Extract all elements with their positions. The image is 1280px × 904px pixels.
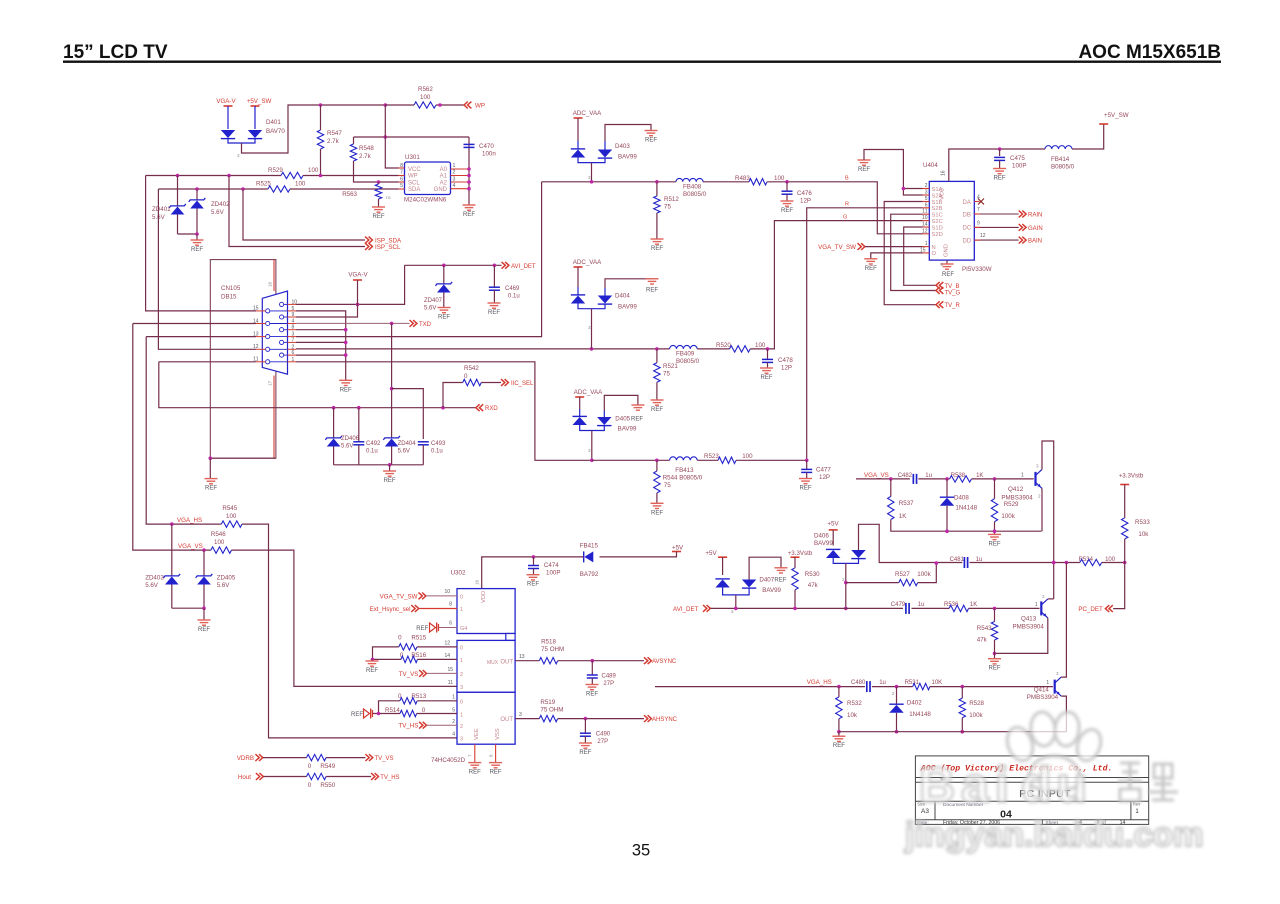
- wire D407 to AVI row: [735, 595, 737, 609]
- diode D405 BAV99: [579, 397, 581, 409]
- VCC rail U404: [949, 149, 1045, 181]
- svg-text:1u: 1u: [918, 602, 925, 608]
- zener ZD404: [385, 439, 399, 447]
- capacitor C475: [999, 149, 1001, 156]
- wire D405 right to REF: [604, 395, 638, 410]
- ground for D404: [646, 279, 659, 284]
- wire RXD row: [159, 362, 476, 408]
- svg-text:14: 14: [444, 653, 450, 659]
- resistor R530: [794, 557, 796, 568]
- zener ZD407: [443, 265, 445, 283]
- svg-text:74HC4052D: 74HC4052D: [431, 757, 466, 764]
- svg-text:R546: R546: [211, 531, 226, 538]
- svg-text:U302: U302: [451, 570, 466, 577]
- svg-text:TV_B: TV_B: [945, 284, 960, 290]
- svg-text:DA: DA: [963, 200, 971, 206]
- ground for R521: [651, 400, 664, 405]
- svg-text:5.6V: 5.6V: [145, 582, 159, 589]
- wire pin8 stub: [296, 329, 346, 331]
- pin stubs U404 left: [923, 188, 930, 190]
- port BAIN: [974, 239, 1018, 241]
- zener ZD401: [177, 176, 179, 206]
- port ISP_SCL: [365, 243, 369, 250]
- ground for VEE: [468, 763, 481, 768]
- power flag +5V_SW right: [1072, 124, 1104, 149]
- svg-text:D405: D405: [615, 416, 630, 423]
- wire S1C to TV_G riser: [891, 214, 936, 290]
- svg-text:VGA_HS: VGA_HS: [807, 679, 832, 686]
- pin stubs U301 left: [399, 167, 405, 169]
- svg-text:REF: REF: [373, 214, 385, 220]
- svg-text:C477: C477: [816, 467, 831, 474]
- svg-text:0: 0: [460, 646, 463, 652]
- svg-text:WP: WP: [408, 174, 418, 180]
- wire: [254, 106, 256, 129]
- zener ZD405: [203, 550, 205, 575]
- svg-text:+5V: +5V: [827, 521, 839, 528]
- svg-text:REF: REF: [586, 692, 598, 698]
- wire to U302 VDD: [482, 557, 584, 589]
- svg-text:+3.3Vstb: +3.3Vstb: [1119, 473, 1144, 480]
- wire VGA-V to pin9: [296, 280, 358, 317]
- svg-text:R527: R527: [895, 571, 910, 578]
- port TV_G: [936, 287, 940, 294]
- svg-text:2: 2: [1038, 494, 1041, 499]
- svg-text:R563: R563: [342, 191, 357, 198]
- svg-text:100k: 100k: [969, 712, 983, 719]
- wire ISP_SDA: [243, 189, 365, 240]
- svg-text:B0805/0: B0805/0: [683, 191, 707, 198]
- resistor R532: [838, 687, 840, 697]
- ground for D403: [645, 131, 658, 136]
- resistor R543: [994, 608, 996, 621]
- svg-text:C475: C475: [1010, 155, 1025, 162]
- wire C480 to R531: [872, 686, 913, 688]
- svg-text:D408: D408: [954, 495, 969, 502]
- capacitor C481: [963, 557, 965, 568]
- svg-text:3: 3: [460, 737, 463, 743]
- svg-text:WP: WP: [475, 103, 485, 110]
- wire Q412 emitter: [1041, 488, 1043, 531]
- svg-text:4: 4: [452, 732, 455, 738]
- svg-text:REF: REF: [340, 387, 352, 393]
- svg-text:S2B: S2B: [932, 206, 943, 212]
- wire pin5 ground chain: [296, 311, 346, 380]
- svg-text:5: 5: [400, 183, 403, 189]
- U302 VSS pin: [495, 744, 497, 762]
- svg-text:REF: REF: [781, 208, 793, 214]
- zener ZD406: [333, 408, 335, 438]
- wire S1D to TV_B riser: [904, 227, 936, 285]
- svg-text:1: 1: [925, 241, 928, 247]
- svg-text:75 OHM: 75 OHM: [541, 646, 564, 653]
- ground for D407: [775, 568, 788, 573]
- ferrite FB413: [670, 457, 698, 460]
- ferrite FB414: [1045, 146, 1072, 149]
- svg-text:VCC: VCC: [940, 188, 946, 200]
- capacitor C477: [806, 460, 808, 469]
- svg-text:VGA_VS: VGA_VS: [178, 543, 203, 550]
- wire Q413 emitter to ground row: [995, 618, 1048, 654]
- svg-text:R528: R528: [969, 700, 984, 707]
- svg-text:0.1u: 0.1u: [431, 449, 443, 455]
- svg-text:100: 100: [214, 539, 225, 546]
- svg-text:TV_HS: TV_HS: [398, 723, 418, 730]
- svg-text:VGA-V: VGA-V: [348, 272, 368, 279]
- svg-text:2: 2: [460, 672, 463, 678]
- svg-text:BAV99: BAV99: [618, 154, 637, 161]
- svg-text:A2: A2: [440, 180, 448, 186]
- svg-text:Q413: Q413: [1021, 616, 1037, 623]
- pin stubs U301 right: [451, 168, 470, 170]
- port AVI_DET: [502, 262, 506, 269]
- wire D406 mid to R527 and AVI: [845, 563, 847, 608]
- ground for CN105 gnd pins: [339, 380, 352, 385]
- svg-text:R550: R550: [320, 782, 335, 789]
- svg-text:N: N: [932, 245, 936, 251]
- svg-text:B0805/0: B0805/0: [676, 358, 700, 365]
- svg-text:BAV99: BAV99: [618, 304, 637, 311]
- resistor R537: [890, 479, 892, 497]
- svg-text:VEE: VEE: [474, 728, 480, 740]
- svg-text:VGA_VS: VGA_VS: [864, 472, 889, 479]
- svg-text:1u: 1u: [925, 473, 932, 479]
- svg-text:REF: REF: [651, 510, 663, 516]
- svg-text:16: 16: [941, 170, 947, 176]
- svg-text:R529: R529: [1004, 501, 1019, 508]
- svg-text:OUT: OUT: [500, 659, 513, 665]
- svg-text:100: 100: [295, 181, 306, 188]
- svg-text:10k: 10k: [1138, 531, 1149, 538]
- svg-text:REF: REF: [366, 668, 378, 674]
- port ISP_SDA: [365, 237, 369, 244]
- ground for C469: [488, 303, 501, 308]
- wire AVI_DET row: [405, 264, 502, 266]
- ground for C490: [579, 743, 592, 748]
- svg-text:R529: R529: [268, 167, 283, 174]
- ground for zener group: [383, 471, 396, 476]
- svg-text:BAIN: BAIN: [1028, 239, 1042, 245]
- svg-text:AVI_DET: AVI_DET: [511, 264, 536, 270]
- svg-text:47k: 47k: [977, 637, 988, 644]
- svg-text:PMBS3904: PMBS3904: [1027, 694, 1059, 701]
- resistor R512: [656, 182, 658, 196]
- svg-text:3: 3: [1056, 671, 1059, 676]
- svg-text:D403: D403: [615, 143, 630, 150]
- svg-text:C492: C492: [366, 441, 381, 447]
- wire U301 right node: [468, 137, 470, 205]
- port TXD: [410, 320, 414, 327]
- svg-text:9: 9: [977, 220, 980, 226]
- resistor R549: [307, 754, 327, 760]
- svg-text:C489: C489: [602, 674, 617, 680]
- svg-text:R530: R530: [805, 571, 820, 578]
- svg-text:75 OHM: 75 OHM: [540, 707, 563, 714]
- svg-text:100k: 100k: [1001, 513, 1015, 520]
- svg-text:27P: 27P: [603, 681, 614, 687]
- svg-text:1: 1: [453, 163, 456, 169]
- svg-text:Ext_Hsync_sel: Ext_Hsync_sel: [370, 606, 411, 613]
- pin DA no-connect: [974, 201, 979, 203]
- svg-text:12P: 12P: [819, 474, 830, 481]
- ground for R532: [838, 732, 840, 737]
- wire TXD riser to ZD404: [391, 323, 393, 437]
- svg-text:TV_VS: TV_VS: [399, 671, 419, 678]
- wire pin11 row: [159, 361, 256, 363]
- resistor R521: [656, 349, 658, 363]
- svg-text:PC_DET: PC_DET: [1078, 606, 1103, 613]
- svg-text:VGA_HS: VGA_HS: [177, 517, 202, 524]
- title block frame: [915, 756, 1148, 825]
- svg-text:VCC: VCC: [408, 167, 421, 173]
- ground CN105 shell: [210, 457, 276, 459]
- svg-text:jingyan.baidu.com: jingyan.baidu.com: [904, 816, 1203, 854]
- wire: [227, 106, 229, 129]
- svg-text:TV_R: TV_R: [945, 303, 961, 309]
- svg-text:15” LCD TV: 15” LCD TV: [63, 42, 168, 63]
- svg-text:1: 1: [1035, 602, 1038, 608]
- svg-text:AVSYNC: AVSYNC: [652, 659, 677, 665]
- resistor R550: [307, 773, 327, 779]
- resistor R528: [961, 687, 963, 699]
- svg-text:REF: REF: [198, 627, 210, 633]
- svg-text:2.7k: 2.7k: [327, 138, 340, 145]
- ground for C474: [527, 575, 540, 580]
- svg-text:TV_VS: TV_VS: [375, 756, 394, 762]
- svg-text:S2D: S2D: [932, 232, 943, 238]
- svg-text:5.6V: 5.6V: [217, 582, 231, 589]
- svg-text:ADC_VAA: ADC_VAA: [573, 259, 602, 266]
- ground for C470: [463, 205, 476, 210]
- svg-text:R520: R520: [716, 342, 731, 349]
- wire VGA_VS to C482: [856, 478, 910, 480]
- svg-text:10K: 10K: [932, 680, 943, 686]
- svg-text:FB414: FB414: [1051, 156, 1070, 163]
- svg-text:100P: 100P: [1012, 163, 1026, 170]
- svg-text:2.7k: 2.7k: [359, 153, 372, 160]
- svg-text:ZD403: ZD403: [145, 575, 164, 582]
- diode D402 1N4148: [896, 687, 898, 705]
- wire pin7 stub: [296, 341, 346, 343]
- svg-text:REF: REF: [205, 486, 217, 492]
- svg-text:75: 75: [663, 371, 670, 378]
- svg-text:47k: 47k: [808, 582, 819, 589]
- svg-text:3: 3: [460, 685, 463, 691]
- svg-text:REF: REF: [645, 138, 657, 144]
- ferrite FB408: [676, 178, 703, 181]
- svg-text:B0805/0: B0805/0: [1051, 164, 1075, 171]
- ground for C476: [781, 201, 794, 206]
- diode D407 BAV99: [722, 557, 724, 575]
- header underline: [63, 61, 1221, 63]
- connector pins right column: [282, 303, 288, 305]
- svg-text:75: 75: [664, 204, 671, 211]
- svg-text:Bai: Bai: [919, 757, 1015, 813]
- svg-text:15: 15: [447, 667, 453, 673]
- port RXD: [476, 404, 480, 411]
- ferrite FB409: [670, 345, 698, 348]
- wire pin15 row: [146, 176, 256, 311]
- diode D403 BAV99: [577, 118, 579, 141]
- svg-text:VDD: VDD: [481, 591, 487, 603]
- svg-text:R: R: [845, 202, 849, 208]
- svg-text:0.1u: 0.1u: [366, 449, 378, 455]
- svg-text:C482: C482: [898, 473, 913, 479]
- svg-text:REF: REF: [527, 582, 539, 588]
- wire pin10 row to AVI node: [296, 265, 405, 304]
- wire pin12 row: [158, 189, 256, 349]
- wire D405 to R row: [591, 431, 593, 461]
- svg-text:ZD405: ZD405: [217, 575, 236, 582]
- svg-text:1N4148: 1N4148: [955, 505, 977, 512]
- svg-text:3: 3: [1036, 464, 1039, 469]
- wire: [242, 105, 386, 153]
- svg-text:BAV99: BAV99: [618, 426, 637, 433]
- capacitor C490: [584, 719, 586, 733]
- svg-text:D404: D404: [615, 293, 630, 300]
- svg-text:REF: REF: [994, 176, 1006, 182]
- svg-text:REF: REF: [858, 167, 870, 173]
- svg-text:C469: C469: [505, 286, 520, 292]
- svg-text:BAV70: BAV70: [266, 128, 285, 135]
- svg-text:ZD404: ZD404: [398, 441, 417, 447]
- svg-text:C490: C490: [596, 732, 611, 738]
- svg-text:CN105: CN105: [221, 285, 241, 292]
- diode D404 BAV99: [577, 267, 579, 287]
- svg-text:ADC_VAA: ADC_VAA: [574, 389, 603, 396]
- zener ZD403: [171, 524, 173, 575]
- svg-text:1: 1: [460, 607, 463, 613]
- ground for C477: [799, 479, 812, 484]
- wire Q412 collector loop: [1042, 441, 1054, 563]
- svg-text:C474: C474: [544, 562, 559, 569]
- capacitor C493: [418, 441, 429, 443]
- svg-text:REF: REF: [942, 272, 954, 278]
- wire D404 to G row: [591, 309, 593, 349]
- svg-text:Hout: Hout: [238, 774, 251, 781]
- svg-text:75: 75: [664, 482, 671, 489]
- svg-text:0: 0: [308, 763, 312, 770]
- resistor R529: [994, 479, 996, 499]
- svg-text:REF: REF: [490, 770, 502, 776]
- svg-text:100n: 100n: [482, 151, 496, 158]
- wire pin13 row: [146, 336, 256, 338]
- svg-text:C470: C470: [479, 143, 494, 150]
- svg-text:R523: R523: [704, 453, 719, 460]
- wire C482 to R538: [918, 478, 949, 480]
- wire D404 right to REF: [605, 279, 652, 288]
- ground for R563: [372, 207, 385, 212]
- svg-text:PMBS3904: PMBS3904: [1013, 624, 1045, 631]
- ground for R516: [371, 659, 373, 661]
- wire O pin to ground: [871, 253, 923, 259]
- svg-text:100P: 100P: [546, 570, 560, 577]
- svg-text:1: 1: [1021, 473, 1024, 479]
- svg-text:R515: R515: [411, 635, 426, 642]
- wire ISP_SCL: [229, 176, 365, 247]
- capacitor C492: [358, 408, 360, 442]
- wire pin1 red channel: [296, 362, 592, 461]
- ground for ZD407: [438, 308, 451, 313]
- port RAIN: [974, 213, 1018, 215]
- svg-text:16: 16: [268, 281, 273, 287]
- port PC_DET: [1113, 563, 1125, 609]
- svg-text:REF: REF: [989, 666, 1001, 672]
- svg-text:10k: 10k: [847, 712, 858, 719]
- svg-text:TV_G: TV_G: [945, 291, 961, 297]
- resistor R547: [320, 105, 322, 130]
- connector shell pin 16: [273, 260, 275, 291]
- svg-text:REF: REF: [774, 578, 786, 584]
- svg-text:O: O: [932, 251, 937, 257]
- wire zener group join: [334, 464, 424, 466]
- svg-text:PMBS3904: PMBS3904: [1001, 495, 1033, 502]
- zener ZD402: [196, 189, 198, 200]
- svg-text:100: 100: [308, 167, 319, 174]
- svg-text:ZD407: ZD407: [424, 298, 443, 304]
- svg-text:AOC M15X651B: AOC M15X651B: [1078, 42, 1221, 63]
- svg-text:REF: REF: [416, 626, 428, 632]
- svg-text:PI5V330W: PI5V330W: [962, 266, 992, 273]
- svg-text:VGA-V: VGA-V: [216, 98, 236, 105]
- svg-text:8: 8: [940, 262, 943, 267]
- svg-text:13: 13: [519, 654, 525, 660]
- svg-text:S1C: S1C: [932, 213, 943, 219]
- svg-text:M24C02WMN6: M24C02WMN6: [404, 197, 447, 204]
- port TV_B: [936, 282, 940, 289]
- svg-text:5.6V: 5.6V: [398, 449, 410, 455]
- resistor R548: [353, 137, 355, 144]
- svg-text:REF: REF: [761, 375, 773, 381]
- svg-text:G4: G4: [460, 626, 467, 632]
- wire FB415 row: [600, 552, 677, 557]
- port AVSYNC: [644, 657, 648, 664]
- svg-text:7: 7: [400, 170, 403, 176]
- ground path S1A S2A: [858, 160, 871, 165]
- svg-text:ISP_SCL: ISP_SCL: [375, 244, 401, 251]
- svg-text:R518: R518: [541, 639, 556, 646]
- svg-text:0: 0: [398, 635, 402, 642]
- svg-text:FB408: FB408: [683, 184, 702, 191]
- svg-text:R562: R562: [418, 86, 433, 93]
- svg-text:R483: R483: [735, 175, 750, 182]
- capacitor C476: [786, 182, 788, 191]
- wire VGA_VS row: [133, 324, 211, 551]
- diode D401 BAV70: [221, 130, 235, 138]
- wire D403 to B row: [591, 163, 593, 182]
- wire VGA_HS row: [146, 337, 221, 524]
- svg-text:ADC_VAA: ADC_VAA: [573, 110, 602, 117]
- wire VGA_HS row right: [655, 686, 865, 688]
- svg-text:C479: C479: [891, 602, 906, 608]
- svg-text:0: 0: [460, 700, 463, 706]
- svg-text:5.6V: 5.6V: [211, 209, 225, 216]
- port AHSYNC: [644, 715, 648, 722]
- ground for C489: [586, 685, 599, 690]
- svg-text:REF: REF: [351, 712, 363, 718]
- svg-text:REF: REF: [865, 266, 877, 272]
- svg-text:7: 7: [977, 207, 980, 213]
- svg-text:12: 12: [444, 641, 450, 647]
- svg-text:8: 8: [489, 754, 494, 757]
- svg-text:Q414: Q414: [1034, 687, 1050, 694]
- capacitor C489: [591, 661, 593, 675]
- svg-text:R519: R519: [540, 699, 555, 706]
- svg-text:+5V: +5V: [672, 545, 684, 552]
- svg-text:R537: R537: [899, 500, 914, 507]
- svg-text:VSS: VSS: [495, 728, 501, 740]
- wire D403 right to REF: [605, 125, 651, 142]
